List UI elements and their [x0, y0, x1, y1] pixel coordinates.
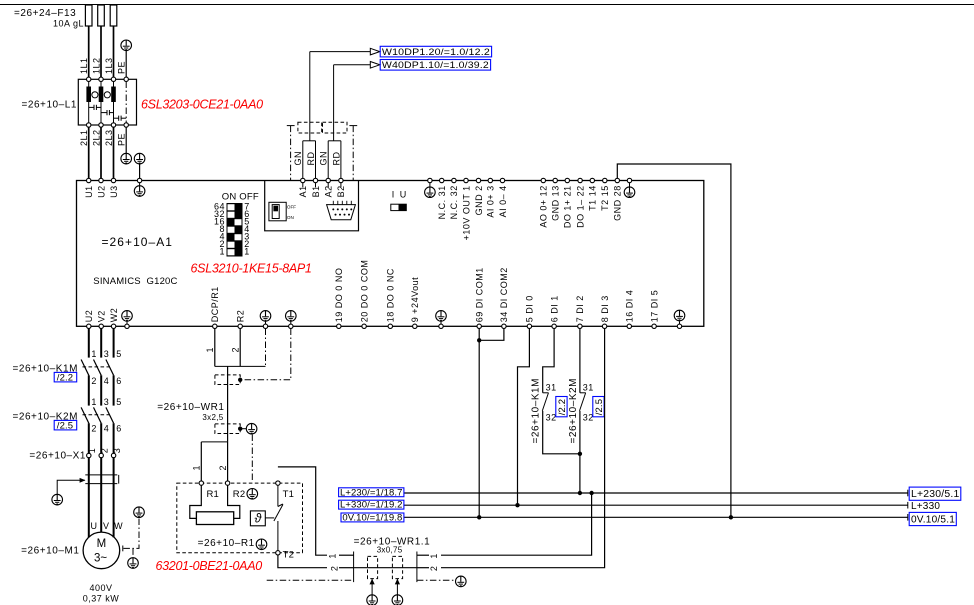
terminal V2	[97, 310, 107, 328]
node 2L3	[104, 129, 114, 146]
wire PE stub b5	[679, 321, 681, 324]
node shield tap WR1 top	[238, 378, 242, 382]
node WR1 conductor 1 top	[205, 347, 215, 353]
svg-text:W2: W2	[109, 308, 119, 323]
cable WR1 marker bottom	[215, 424, 240, 434]
wire conductor at 328.2	[327, 141, 329, 179]
svg-text:L+330: L+330	[911, 501, 940, 512]
svg-text:OFF: OFF	[287, 204, 296, 209]
wire cable W40DP trunk	[333, 65, 335, 141]
svg-text:=26+10–A1: =26+10–A1	[102, 235, 174, 249]
node motor V	[103, 521, 110, 531]
wire PE stub	[139, 183, 141, 186]
svg-text:SINAMICS G120C: SINAMICS G120C	[93, 276, 177, 287]
svg-text:3~: 3~	[94, 553, 107, 565]
wire motor phase at 88.8 drive to K1M	[88, 329, 90, 358]
terminal 5	[525, 295, 535, 328]
wire PE stub right	[629, 183, 631, 187]
node 2L1	[79, 129, 89, 146]
ground PE filter output	[121, 153, 132, 164]
terminal filter bottom 4	[124, 123, 128, 127]
terminal U1	[84, 178, 94, 198]
wire shield WR1.1 left	[267, 579, 354, 581]
wire motor PE dash-dot	[123, 518, 139, 549]
thermal sensor theta	[250, 511, 274, 526]
ground PE internal top left	[134, 186, 145, 197]
wire DCP/R1 down	[214, 329, 216, 367]
wire PE stub	[290, 321, 292, 324]
svg-text:18 DO 0 NC: 18 DO 0 NC	[386, 268, 396, 322]
svg-text:T2: T2	[283, 550, 295, 561]
wire earth to drive PE	[139, 164, 141, 178]
wire shield drive PE a	[265, 329, 267, 367]
wire DI 2 to K2M aux	[579, 329, 581, 393]
node K2M cross reference /2.5	[54, 420, 76, 431]
svg-text:1: 1	[328, 553, 338, 559]
resistor R1 enclosure	[177, 483, 303, 553]
svg-text:6: 6	[116, 424, 122, 434]
ground motor cable shield	[52, 494, 63, 505]
svg-text:AI 0– 4: AI 0– 4	[498, 185, 508, 217]
svg-text:AO 0+ 12: AO 0+ 12	[539, 185, 549, 227]
terminal 6	[549, 295, 559, 328]
wire motor phase at 101.2 K1M to K2M	[100, 375, 102, 405]
svg-text:69 DI COM1: 69 DI COM1	[475, 267, 485, 322]
svg-text:=26+10–L1: =26+10–L1	[21, 100, 77, 111]
wire motor PE down	[132, 548, 134, 557]
wire WR1.1 conductor 2 right stub	[417, 567, 429, 569]
terminal 16	[625, 290, 635, 329]
fuse F13 pole 2	[98, 5, 105, 26]
svg-text:L+230/5.1: L+230/5.1	[911, 489, 960, 500]
svg-text:/2.2: /2.2	[57, 372, 73, 383]
wire PE stub bl	[126, 321, 128, 324]
svg-text:M: M	[97, 538, 107, 550]
cable W40DP marker	[323, 122, 348, 133]
svg-text:9 +24Vout: 9 +24Vout	[410, 277, 420, 322]
svg-text:1: 1	[429, 553, 439, 559]
svg-text:3x2,5: 3x2,5	[202, 413, 223, 422]
ground PE source	[121, 40, 132, 51]
svg-text:U3: U3	[109, 185, 119, 198]
wire WR1 gather bar top	[215, 365, 266, 367]
svg-text:RD: RD	[306, 152, 316, 166]
contactor K1M main contacts	[81, 360, 114, 376]
wire shield drive PE b	[242, 329, 290, 380]
svg-text:5 DI 0: 5 DI 0	[525, 295, 535, 322]
node WR1.1 conductor 2 label right	[429, 566, 439, 572]
wire shield WR1 to ground	[240, 428, 246, 430]
node choke coupling 2	[104, 92, 110, 98]
wire phase 2 from frame to filter	[100, 5, 102, 80]
svg-text:W: W	[114, 521, 123, 531]
cable shield clamp motor	[85, 475, 118, 484]
wire shield W40DP	[349, 126, 357, 181]
svg-text:400V: 400V	[89, 583, 112, 593]
node RD conductor 2	[331, 152, 341, 166]
wire net 0V.10	[404, 516, 908, 518]
terminal PE drive top left	[137, 178, 141, 182]
svg-text:ϑ: ϑ	[254, 512, 262, 526]
svg-text:L+330/=1/19.2: L+330/=1/19.2	[340, 500, 403, 511]
inductor filter choke 2	[99, 82, 104, 123]
node T2 label	[283, 550, 295, 561]
drive interface sub-box	[265, 181, 359, 231]
svg-text:2L1: 2L1	[79, 129, 89, 146]
ground motor PE up	[134, 507, 145, 518]
terminal PE b3	[289, 324, 293, 328]
wire WR1 conductor 1 to R1	[200, 442, 202, 481]
wire DI 0 to L+330	[518, 329, 530, 506]
wire net L+330	[404, 504, 908, 506]
node K2M pins 1 3 5	[91, 397, 121, 407]
svg-text:+10V OUT 1: +10V OUT 1	[461, 185, 471, 240]
node 1L2	[92, 57, 102, 74]
wire net L+230	[404, 492, 908, 494]
svg-text:2L2: 2L2	[92, 129, 102, 146]
wire WR1.1 conductor 2 left stub	[339, 567, 354, 569]
terminal 18	[386, 268, 396, 328]
node PE top	[117, 61, 127, 74]
motor M1	[83, 532, 120, 569]
svg-text:GND 13: GND 13	[551, 185, 561, 221]
resistor R1 element	[190, 485, 240, 524]
svg-text:2: 2	[91, 376, 97, 386]
terminal AI 0- 4	[498, 178, 508, 217]
terminal PE b4	[439, 324, 443, 328]
svg-text:3: 3	[104, 397, 110, 407]
svg-text:6SL3210-1KE15-8AP1: 6SL3210-1KE15-8AP1	[191, 262, 312, 276]
terminal PE b5	[677, 324, 681, 328]
wire L+230 tap to WR1.1 conductor 1	[441, 493, 592, 555]
ground shield WR1.1 a	[367, 595, 378, 605]
node T1 label	[283, 489, 295, 500]
ground motor PE down	[128, 558, 139, 569]
wire motor cable V	[100, 458, 102, 533]
svg-text:=26+10–M1: =26+10–M1	[21, 546, 79, 557]
connector X21 D-sub	[327, 201, 356, 220]
terminal T2	[276, 551, 280, 555]
wire DI COM2 join	[479, 329, 504, 341]
wire T1 to WR1.1 conductor 1	[278, 467, 327, 555]
node L+330 source reference	[339, 500, 404, 511]
svg-text:1: 1	[87, 448, 97, 454]
wire K1M aux to DI2 wire	[543, 411, 580, 454]
drive type label	[93, 276, 177, 287]
wire motor phase at 88.8 K2M to X1	[88, 423, 90, 453]
svg-text:6: 6	[116, 376, 122, 386]
wire motor phase at 113.6 K1M to K2M	[113, 375, 115, 405]
wire shield WR1.1 marker2 to ground	[395, 579, 400, 595]
svg-text:2: 2	[429, 566, 439, 572]
terminal PE top mid	[428, 178, 432, 182]
terminal DO 1+ 21	[563, 178, 573, 228]
ground PE drive input	[134, 153, 145, 164]
wire PE stub b4	[440, 321, 442, 324]
node L+230 source reference	[339, 487, 404, 498]
svg-text:2: 2	[218, 465, 228, 471]
node junction L+230 / aux	[578, 491, 582, 495]
line filter L1 label	[21, 100, 77, 111]
cable WR1.1 right delimiter	[416, 552, 418, 583]
terminal B2	[336, 178, 346, 197]
node GN conductor 2	[319, 151, 329, 166]
cable W10DP marker	[298, 122, 322, 133]
terminal N.C. 32	[449, 178, 459, 219]
part number 6SL3203-0CE21-0AA0	[141, 98, 263, 112]
svg-text:I: I	[392, 190, 395, 200]
wire 2L1 filter to drive	[88, 127, 90, 178]
svg-text:32: 32	[546, 413, 557, 423]
wire conductor at 315.5	[315, 141, 317, 179]
cable WR1.1 marker 2	[392, 556, 402, 578]
svg-text:R2: R2	[236, 310, 246, 323]
svg-text:GN: GN	[293, 151, 303, 166]
svg-text:17 DI 5: 17 DI 5	[649, 290, 659, 323]
terminal AO 0+ 12	[539, 178, 549, 227]
bus terminator switch	[269, 202, 296, 221]
node choke coupling 1	[92, 92, 98, 98]
cable W10DP destination arrow	[310, 48, 380, 55]
svg-text:1: 1	[192, 465, 202, 471]
terminal filter bottom 3	[111, 123, 115, 127]
node K1M pins 1 3 5	[91, 349, 121, 359]
terminal 17	[649, 290, 659, 329]
svg-text:10A gL: 10A gL	[53, 19, 84, 29]
svg-text:U1: U1	[84, 185, 94, 198]
svg-text:0,37 kW: 0,37 kW	[83, 593, 120, 603]
wire conductor at 340.9	[340, 141, 342, 179]
node L+230 right reference	[908, 487, 961, 500]
wire motor phase at 101.2 K2M to X1	[100, 423, 102, 453]
wire shield WR1.1 right	[417, 579, 455, 581]
svg-text:DO 1+ 21: DO 1+ 21	[563, 185, 573, 228]
wire frame top border	[0, 4, 974, 6]
node K1M cross reference /2.2	[556, 397, 568, 417]
svg-text:63201-0BE21-0AA0: 63201-0BE21-0AA0	[156, 559, 263, 573]
svg-text:1: 1	[219, 247, 225, 257]
terminal N.C. 31	[437, 178, 447, 219]
inductor filter choke 1	[86, 82, 91, 123]
svg-text:16 DI 4: 16 DI 4	[625, 290, 635, 323]
fuse F13 label	[14, 8, 84, 29]
terminal X1:2	[99, 453, 103, 457]
wire shield W10DP	[287, 126, 295, 181]
node K2M pin 32	[583, 413, 594, 423]
svg-text:1: 1	[91, 349, 97, 359]
wire GND 28 to 0V.10	[617, 164, 731, 517]
ground R1 PE	[256, 539, 267, 550]
terminal R2	[225, 481, 229, 485]
svg-text:V: V	[103, 521, 110, 531]
terminal DO 1- 22	[575, 178, 585, 228]
svg-text:2L3: 2L3	[104, 129, 114, 146]
cable W40DP destination arrow	[334, 62, 380, 69]
svg-text:34 DI COM2: 34 DI COM2	[499, 267, 509, 322]
terminal 9	[410, 277, 420, 329]
wire motor cable W	[113, 458, 115, 538]
terminal T1	[276, 481, 280, 485]
svg-text:31: 31	[583, 382, 594, 392]
line filter L1 box	[78, 79, 136, 125]
terminal X1:3	[111, 453, 115, 457]
svg-text:RD: RD	[331, 152, 341, 166]
svg-text:U: U	[91, 521, 98, 531]
terminal filter top 1	[87, 77, 91, 81]
node 0V.10 right reference	[908, 512, 957, 525]
wire conductor at 302.8	[302, 141, 304, 179]
svg-text:8 DI 3: 8 DI 3	[600, 295, 610, 322]
wire motor PE tick	[122, 546, 124, 552]
ground PE internal b5	[674, 310, 685, 321]
node WR1 conductor 2 bottom	[218, 465, 228, 471]
fuse F13 pole 1	[85, 5, 92, 26]
svg-text:=26+10–K2M: =26+10–K2M	[568, 378, 579, 444]
node WR1.1 conductor 1 label left	[328, 553, 338, 559]
terminal U3	[109, 178, 119, 198]
node junction DI COM1/COM2	[477, 338, 481, 342]
part number 63201-0BE21-0AA0	[156, 559, 263, 573]
svg-text:T2 15: T2 15	[600, 185, 610, 211]
wire PE stub	[265, 321, 267, 324]
svg-text:=26+10–WR1: =26+10–WR1	[157, 402, 224, 413]
terminal T1 14	[588, 178, 598, 211]
svg-text:ON OFF: ON OFF	[222, 192, 259, 203]
terminal 20	[359, 260, 369, 329]
svg-text:=26+24–F13: =26+24–F13	[14, 8, 76, 19]
node junction aux contacts	[578, 452, 582, 456]
transistor K1M auxiliary contact 31-32	[542, 393, 548, 411]
wire shield WR1 to R1 box	[251, 435, 253, 482]
wire T2 to WR1.1 conductor 2	[278, 555, 327, 568]
wire cable W10DP trunk	[309, 52, 311, 141]
motor rating label	[83, 583, 120, 603]
svg-text:2: 2	[231, 347, 241, 353]
svg-text:AI 0+ 3: AI 0+ 3	[486, 185, 496, 217]
svg-text:L+230/=1/18.7: L+230/=1/18.7	[340, 487, 403, 498]
wire DI COM1 to 0V.10	[478, 329, 480, 518]
terminal GND 28	[613, 178, 623, 221]
wire WR1 gather bar bottom	[201, 441, 227, 443]
part number 6SL3210-1KE15-8AP1	[191, 262, 312, 276]
terminal R1	[199, 481, 203, 485]
svg-text:DO 1– 22: DO 1– 22	[575, 185, 585, 228]
svg-text:U: U	[400, 190, 407, 200]
svg-text:/2.2: /2.2	[557, 399, 568, 415]
svg-text:3x0,75: 3x0,75	[377, 546, 403, 555]
wire motor phase at 113.6 drive to K1M	[113, 329, 115, 358]
svg-text:1: 1	[91, 397, 97, 407]
ground PE b3 internal	[286, 311, 297, 322]
wire PE to filter	[125, 51, 127, 80]
terminal R2	[236, 310, 246, 329]
terminal filter top 3	[111, 77, 115, 81]
terminal W2	[109, 308, 119, 329]
cable WR1.1 marker 1	[368, 556, 378, 578]
svg-text:1: 1	[205, 347, 215, 353]
svg-text:2: 2	[329, 566, 339, 572]
terminal +10V OUT 1	[461, 178, 471, 240]
svg-text:N.C. 32: N.C. 32	[449, 185, 459, 219]
node motor W	[114, 521, 123, 531]
node junction L+230 / WR1.1	[589, 491, 593, 495]
svg-text:PE: PE	[117, 133, 127, 146]
ground PE b2 internal	[260, 311, 271, 322]
wire motor phase at 113.6 K2M to X1	[113, 423, 115, 453]
svg-text:6SL3203-0CE21-0AA0: 6SL3203-0CE21-0AA0	[141, 98, 263, 112]
ground PE internal b4	[436, 311, 447, 322]
svg-text:DCP/R1: DCP/R1	[210, 286, 220, 322]
cable WR1.1 left delimiter	[353, 552, 355, 583]
wire cable W10DP fan bar	[303, 140, 316, 142]
wire 2L3 filter to drive	[113, 127, 115, 178]
node 2L2	[92, 129, 102, 146]
terminal filter bottom 2	[99, 123, 103, 127]
node K1M pin 32	[546, 413, 557, 423]
svg-text:1L1: 1L1	[79, 57, 89, 74]
wire motor phase at 101.2 drive to K1M	[100, 329, 102, 358]
node K2M pin 31	[583, 382, 594, 392]
terminal GND 2	[474, 178, 484, 215]
wire PE filter to earth	[125, 127, 127, 153]
node WR1.1 conductor 1 label right	[429, 553, 439, 559]
wire DI 1 to K1M aux	[543, 329, 554, 393]
terminal AI 0+ 3	[486, 178, 496, 217]
svg-text:R1: R1	[207, 489, 220, 500]
contactor K2M main contacts	[81, 407, 114, 423]
cable WR1.1 label	[354, 537, 431, 555]
node K2M pins 2 4 6	[91, 424, 121, 434]
node GN conductor 1	[293, 151, 303, 166]
wire cable WR1.1 combined	[354, 567, 417, 569]
wire 2L2 filter to drive	[100, 127, 102, 178]
svg-text:GND 28: GND 28	[613, 185, 623, 221]
transistor thermal contact T1-T2	[274, 485, 283, 550]
svg-text:V2: V2	[97, 310, 107, 322]
terminal filter bottom 1	[87, 123, 91, 127]
svg-text:T1: T1	[283, 489, 295, 500]
wire A1 B1 A2 B2 stubs	[303, 183, 341, 188]
ground shield WR1	[246, 423, 257, 434]
ground shield WR1.1 right	[456, 576, 467, 587]
svg-text:=26+10–K1M: =26+10–K1M	[531, 378, 542, 444]
svg-text:1L2: 1L2	[92, 57, 102, 74]
capacitor filter C3	[114, 116, 127, 121]
wire WR1.1 conductor 1 right stub	[417, 554, 429, 556]
svg-text:GND 2: GND 2	[474, 185, 484, 215]
wire WR1 conductor 2 to R2	[227, 442, 229, 481]
svg-text:4: 4	[104, 376, 110, 386]
node X1 pin 1	[87, 448, 97, 454]
terminal 7	[575, 295, 585, 328]
wire cable W40DP fan bar	[328, 140, 341, 142]
wire motor phase at 88.8 K1M to K2M	[88, 375, 90, 405]
terminal 19	[334, 268, 344, 329]
node K1M pins 2 4 6	[91, 376, 121, 386]
node PE filter out	[117, 133, 127, 146]
svg-text:0V.10/=1/19.8: 0V.10/=1/19.8	[342, 513, 402, 524]
fuse F13 pole 3	[110, 5, 117, 26]
svg-text:3: 3	[112, 448, 122, 454]
capacitor filter C1	[89, 105, 101, 110]
terminal PE b2	[263, 324, 267, 328]
node W10DP1.20 reference	[380, 46, 491, 58]
node L+330 right reference	[908, 501, 941, 512]
svg-text:2: 2	[91, 424, 97, 434]
terminal filter top 2	[99, 77, 103, 81]
terminal strip X1 label	[29, 451, 86, 462]
node RD conductor 1	[306, 152, 316, 166]
